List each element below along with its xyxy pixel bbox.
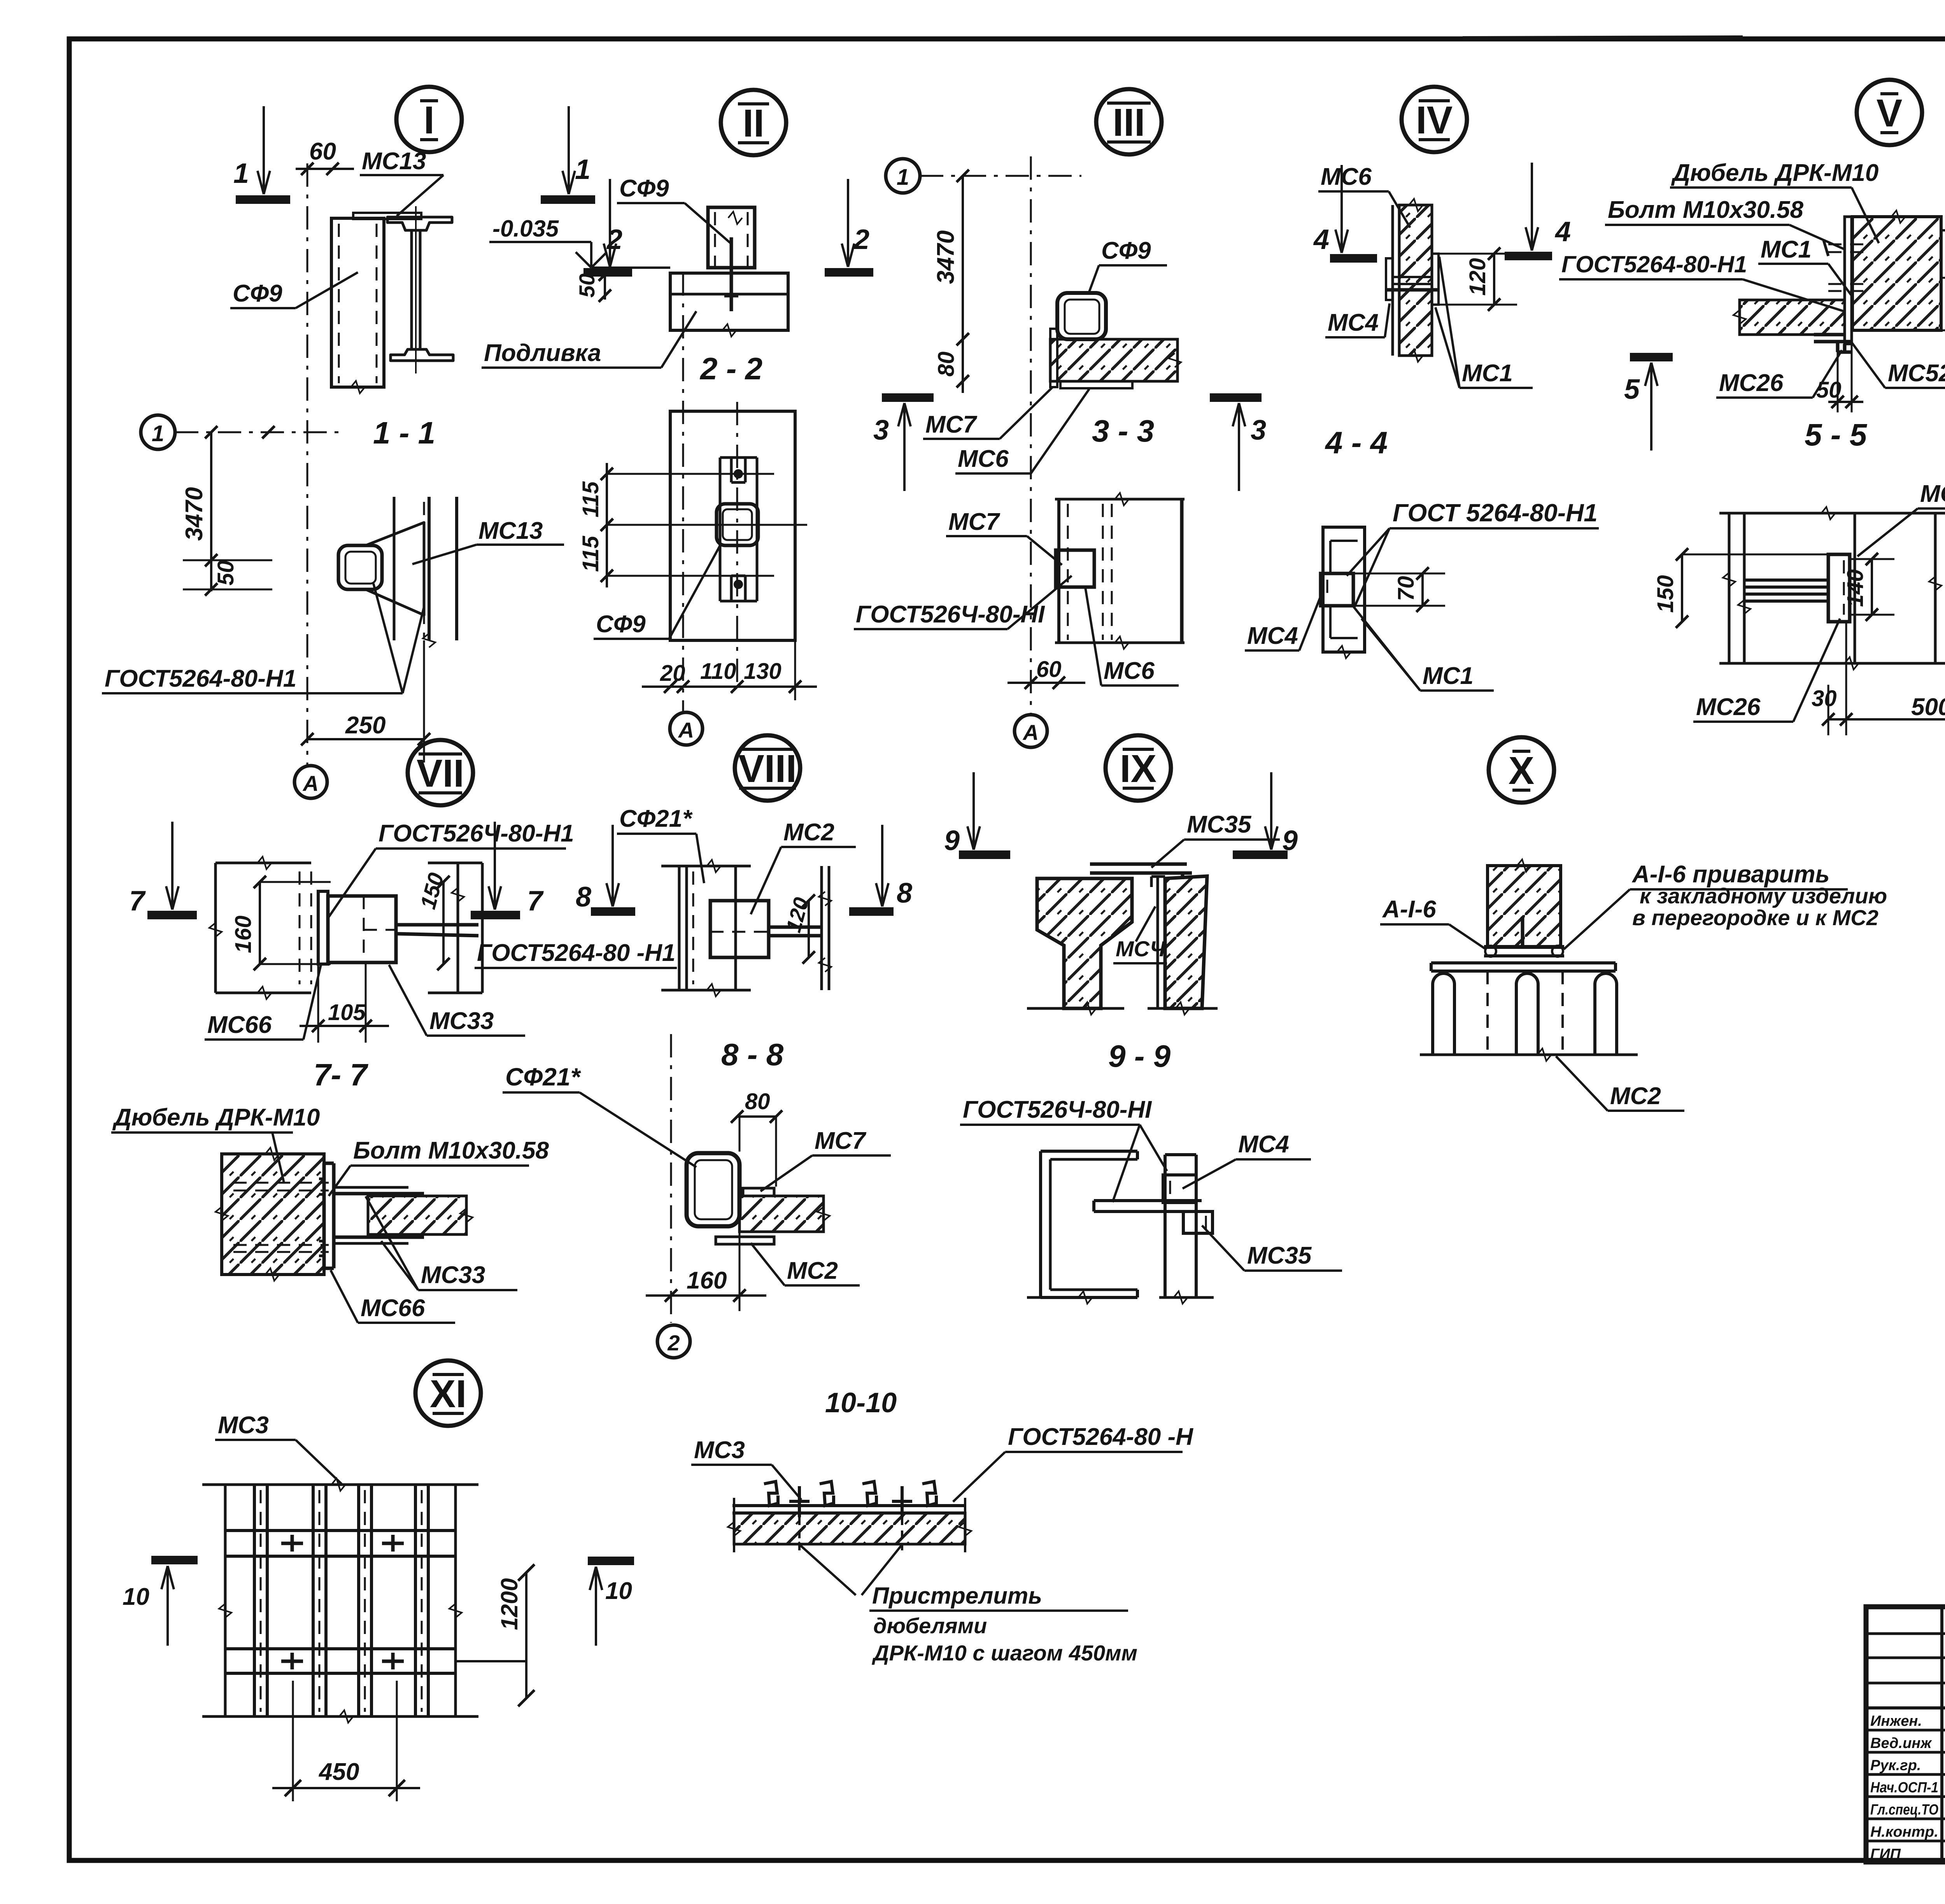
node VIII weld lines right xyxy=(769,927,822,936)
node 5-5 left wall xyxy=(1723,513,1750,663)
label МС7 node 8-8 xyxy=(760,1127,891,1191)
svg-text:130: 130 xyxy=(744,659,782,684)
svg-text:МС35: МС35 xyxy=(1187,811,1252,838)
title block personnel table xyxy=(1866,1607,1945,1862)
svg-text:60: 60 xyxy=(309,138,336,165)
node I I-beam web xyxy=(412,230,420,350)
node III slab hatched xyxy=(1050,339,1181,381)
node IX top plate МС35 xyxy=(1090,864,1192,879)
label МС4 node 9-9 xyxy=(1183,1131,1311,1189)
node X МС2 top plate xyxy=(1431,963,1616,971)
svg-text:4 - 4: 4 - 4 xyxy=(1325,425,1388,460)
svg-text:МС66: МС66 xyxy=(207,1012,272,1038)
node X stem xyxy=(1521,917,1524,947)
label МС7 node III xyxy=(923,387,1053,439)
svg-text:X: X xyxy=(1509,749,1535,792)
section mark 10 right xyxy=(588,1561,634,1646)
node III tube section xyxy=(1057,293,1106,339)
svg-text:50: 50 xyxy=(1816,377,1842,403)
label ГОСТ5264-80-Н1 node VII xyxy=(328,820,574,918)
label ГОСТ5264-80-Н1 node I xyxy=(102,584,424,693)
node X rebar loops xyxy=(1433,973,1617,1055)
svg-text:160: 160 xyxy=(231,915,256,953)
узел III marker circle xyxy=(1096,89,1162,154)
section mark 4 left xyxy=(1330,165,1377,258)
dimension 1200 node XI xyxy=(456,1564,534,1706)
svg-text:50: 50 xyxy=(213,560,238,586)
node XI top line xyxy=(202,1478,478,1491)
node V bolt dashed lower xyxy=(1828,284,1867,291)
svg-text:115: 115 xyxy=(578,481,603,517)
section mark 3 right xyxy=(1210,398,1262,491)
svg-text:3: 3 xyxy=(873,415,889,446)
node VII left wall xyxy=(209,857,311,999)
node XI band row 2 xyxy=(225,1649,456,1673)
label МС2 node 8-8 xyxy=(751,1243,860,1285)
label Дюбель ДРК-М10 node V xyxy=(1670,160,1879,243)
section mark 4 right xyxy=(1505,163,1552,256)
node III plate МС7 xyxy=(1050,329,1057,387)
scan smudge top edge xyxy=(1463,37,1743,38)
dimension 115 115 node 2-2 xyxy=(601,463,613,587)
svg-text:2: 2 xyxy=(853,224,869,255)
node 7-7 МС66 plate xyxy=(319,1163,334,1268)
node I axis circle А xyxy=(294,766,327,798)
svg-text:МС6: МС6 xyxy=(958,445,1009,472)
section mark 1 left xyxy=(236,106,290,200)
svg-text:А-І-6: А-І-6 xyxy=(1382,896,1436,923)
svg-text:80: 80 xyxy=(934,351,959,377)
svg-text:в перегородке и к МС2: в перегородке и к МС2 xyxy=(1632,905,1878,930)
label МС6 node III xyxy=(955,389,1089,473)
node V angle МС26 xyxy=(1814,335,1852,352)
svg-text:1 - 1: 1 - 1 xyxy=(373,416,435,450)
label ГОСТ5264-80-Н1 right node VII xyxy=(475,940,677,968)
svg-text:дюбелями: дюбелями xyxy=(873,1613,987,1638)
svg-text:1200: 1200 xyxy=(496,1578,522,1630)
node IV strap МС4 xyxy=(1386,277,1439,290)
node IV plate МС1 left xyxy=(1386,258,1393,300)
svg-text:Болт М10x30.58: Болт М10x30.58 xyxy=(353,1137,549,1164)
node XI outer verticals xyxy=(219,1485,462,1716)
svg-text:к закладному изделию: к закладному изделию xyxy=(1640,884,1887,908)
svg-text:Н.контр.: Н.контр. xyxy=(1870,1824,1938,1840)
label Болт М10х30.58 node V xyxy=(1605,196,1844,249)
dimension 50 node V xyxy=(1828,344,1863,412)
node 4-4 column xyxy=(1323,527,1365,658)
node V plate МС52 xyxy=(1845,217,1852,344)
svg-text:60: 60 xyxy=(1036,657,1062,682)
svg-text:ГОСТ526Ч-80-Н1: ГОСТ526Ч-80-Н1 xyxy=(378,820,574,847)
svg-text:МС4: МС4 xyxy=(1238,1131,1289,1158)
dimension 120 node VIII xyxy=(803,894,815,964)
svg-text:СФ21*: СФ21* xyxy=(505,1063,581,1091)
dimension 150 node VII xyxy=(437,876,450,970)
dimension 80 node V xyxy=(1941,272,1945,337)
node IX right hatched column xyxy=(1165,876,1207,1008)
узел VII marker circle xyxy=(408,740,473,805)
axis line node I vertical xyxy=(307,163,308,766)
node X base plate with rebars xyxy=(1484,946,1564,957)
node 8-8 axis circle 2 xyxy=(657,1325,690,1358)
dimension 3470 node III xyxy=(957,176,969,393)
svg-text:МСЧ: МСЧ xyxy=(1116,936,1166,961)
svg-text:МС4: МС4 xyxy=(1247,622,1298,649)
dimension 20 110 130 node 2-2 xyxy=(642,640,817,700)
svg-text:8 - 8: 8 - 8 xyxy=(721,1037,784,1072)
svg-text:МС2: МС2 xyxy=(1610,1083,1661,1110)
dimension 140 node 5-5 xyxy=(1850,553,1894,621)
svg-text:120: 120 xyxy=(1465,258,1490,296)
node 5-5 beam lines xyxy=(1744,580,1828,601)
node 2-2 dim extension lines xyxy=(607,474,807,576)
svg-text:МС33: МС33 xyxy=(421,1262,485,1289)
svg-text:10: 10 xyxy=(605,1578,632,1604)
label МС2 node X xyxy=(1556,1056,1684,1111)
section mark 1 right xyxy=(541,106,595,200)
svg-text:9: 9 xyxy=(1282,825,1298,856)
node V axis circle Б xyxy=(1941,213,1945,247)
node 7-7 dowel bottom dashed xyxy=(233,1245,329,1252)
узел XI marker circle xyxy=(415,1361,481,1426)
dimension 30 500 node 5-5 xyxy=(1822,622,1945,735)
node 2-2 tube axis xyxy=(736,402,738,684)
label Подливка xyxy=(482,311,696,368)
svg-text:МС26: МС26 xyxy=(1719,370,1784,396)
svg-text:1: 1 xyxy=(897,165,909,190)
node 2-2 tube section xyxy=(717,504,758,545)
svg-text:Инжен.: Инжен. xyxy=(1870,1713,1922,1729)
dimension 160 node VII xyxy=(254,876,331,970)
node XI channels xyxy=(254,1485,428,1716)
svg-text:МС35: МС35 xyxy=(1247,1242,1312,1269)
section mark 2 left xyxy=(583,179,632,272)
узел II marker circle xyxy=(721,90,786,155)
svg-text:ГОСТ5264-80 -Н1: ГОСТ5264-80 -Н1 xyxy=(477,940,675,966)
personnel names xyxy=(1870,1711,1945,1862)
label ГОСТ5264-80-Н1 node V xyxy=(1559,251,1844,311)
svg-text:8: 8 xyxy=(897,878,912,909)
node 7-7 wall hatched xyxy=(216,1148,324,1281)
node 1-1 gusset МС13 plan xyxy=(366,522,424,615)
svg-text:МС52: МС52 xyxy=(1888,360,1945,387)
label МС6 node 3-3 xyxy=(1085,587,1179,686)
svg-text:А: А xyxy=(302,771,319,796)
node 10-10 dowels xyxy=(789,1486,912,1550)
label СФ9 node I xyxy=(230,272,358,308)
svg-text:10-10: 10-10 xyxy=(825,1387,897,1418)
svg-text:ДРК-М10 с шагом 450мм: ДРК-М10 с шагом 450мм xyxy=(872,1641,1137,1665)
svg-text:МС2: МС2 xyxy=(787,1257,838,1284)
svg-text:150: 150 xyxy=(1653,575,1678,613)
node IX left hatched block xyxy=(1037,878,1132,1008)
dimension 250 node I xyxy=(301,640,430,763)
svg-text:160: 160 xyxy=(687,1267,727,1294)
node 7-7 dowel top dashed xyxy=(233,1183,329,1190)
label МС35 node IX xyxy=(1151,811,1280,868)
node V floor slab hatched xyxy=(1733,300,1845,335)
svg-text:МС33: МС33 xyxy=(429,1008,494,1034)
node IX МС4 plate xyxy=(1151,877,1165,1008)
svg-text:250: 250 xyxy=(345,712,385,739)
svg-text:МС6: МС6 xyxy=(1321,163,1372,190)
узел IX marker circle xyxy=(1106,735,1171,801)
section mark 10 left xyxy=(151,1560,198,1646)
узел X marker circle xyxy=(1489,737,1554,803)
svg-text:МС2: МС2 xyxy=(783,819,834,846)
label МС7 node 3-3 xyxy=(946,508,1062,565)
svg-text:1: 1 xyxy=(152,421,164,446)
svg-text:Гл.спец.ТО: Гл.спец.ТО xyxy=(1870,1802,1938,1818)
svg-text:ГОСТ5264-80-Н1: ГОСТ5264-80-Н1 xyxy=(1561,251,1747,277)
node X ground line xyxy=(1420,1048,1638,1061)
node 5-5 bottom line xyxy=(1719,657,1945,670)
svg-text:115: 115 xyxy=(578,536,603,572)
label МС33 node 7-7 xyxy=(366,1196,517,1290)
node XI band row 1 xyxy=(225,1531,456,1556)
label Болт М10х30.58 node 7-7 xyxy=(329,1137,549,1196)
node 10-10 deck plate xyxy=(732,1506,965,1513)
label А-I-6 node X xyxy=(1380,896,1486,949)
node II anchor bolt xyxy=(724,237,738,311)
node 5-5 top slab line xyxy=(1719,507,1945,519)
dimension 105 node VII xyxy=(300,963,389,1043)
svg-text:V: V xyxy=(1877,91,1903,135)
svg-text:МС52: МС52 xyxy=(1920,480,1945,507)
node X hatched column xyxy=(1488,859,1561,947)
svg-text:МС26: МС26 xyxy=(1696,694,1761,721)
узел V marker circle xyxy=(1857,80,1922,145)
node III axis circle А xyxy=(1015,715,1047,747)
node 8-8 МС2 plate xyxy=(716,1237,774,1244)
node 8-8 slab hatched xyxy=(739,1196,830,1232)
node III axis circle 1 xyxy=(886,159,920,193)
svg-text:МС1: МС1 xyxy=(1761,236,1812,263)
узел IV marker circle xyxy=(1402,87,1467,152)
label МС66 node VII xyxy=(205,965,321,1040)
node 10-10 z-clips xyxy=(764,1481,936,1506)
svg-text:Нач.ОСП-1: Нач.ОСП-1 xyxy=(1870,1780,1938,1796)
label СФ9 node 2-2 xyxy=(594,543,722,639)
dimension 60 node 3-3 xyxy=(1008,677,1085,689)
node I cap plate МС13 xyxy=(353,213,421,219)
node VIII МС2 square xyxy=(710,901,769,957)
node 8-8 МС7 plate xyxy=(743,1188,774,1196)
svg-text:Дюбель ДРК-М10: Дюбель ДРК-М10 xyxy=(1671,160,1878,186)
section mark 8 left xyxy=(591,825,635,912)
node 1-1 channel СФ9 section xyxy=(338,545,382,589)
svg-text:4: 4 xyxy=(1554,216,1571,247)
node III plate МС6 xyxy=(1060,381,1132,388)
svg-text:МС7: МС7 xyxy=(925,411,977,438)
label МС26 node V xyxy=(1716,350,1842,398)
node I I-beam bottom flange xyxy=(391,349,453,361)
svg-text:80: 80 xyxy=(745,1089,770,1114)
svg-text:20: 20 xyxy=(660,661,685,686)
node 4-4 МС1 square xyxy=(1321,573,1353,606)
label МС2 node VIII xyxy=(751,819,856,914)
dimension 160 node 8-8 xyxy=(646,1232,766,1311)
svg-text:5: 5 xyxy=(1624,374,1640,405)
dimension 50 node I xyxy=(183,560,272,596)
svg-text:Вед.инж: Вед.инж xyxy=(1870,1735,1932,1751)
node VII right wall xyxy=(428,863,482,993)
axis line node I horizontal xyxy=(175,431,346,433)
svg-text:Рук.гр.: Рук.гр. xyxy=(1870,1757,1921,1774)
label МС4 node IX xyxy=(1113,906,1167,963)
node 2-2 plan outline xyxy=(670,411,795,640)
label СФ9 node II xyxy=(617,175,731,243)
svg-text:III: III xyxy=(1113,101,1145,144)
node 5-5 right wall xyxy=(1929,513,1941,663)
svg-text:МС66: МС66 xyxy=(361,1295,425,1322)
svg-text:I: I xyxy=(424,98,435,142)
section mark 7 left xyxy=(147,822,197,915)
label МС33 node VII xyxy=(389,965,525,1036)
node VIII right wall lines xyxy=(819,866,831,990)
node 7-7 slab hatched xyxy=(368,1196,473,1234)
dimension 50 node II xyxy=(599,268,611,302)
svg-text:3 - 3: 3 - 3 xyxy=(1092,414,1154,448)
svg-text:140: 140 xyxy=(1843,569,1868,607)
node VII МС33 square xyxy=(328,896,396,963)
node 9-9 МС35 square xyxy=(1183,1211,1213,1233)
section mark 7 right xyxy=(471,822,520,915)
svg-text:ГОСТ526Ч-80-НІ: ГОСТ526Ч-80-НІ xyxy=(963,1096,1152,1123)
svg-text:МС3: МС3 xyxy=(218,1412,269,1439)
dimension 120 node IV xyxy=(1439,247,1517,311)
section mark 9 right node IX xyxy=(1233,772,1288,855)
dimension 80 node 8-8 xyxy=(731,1110,782,1187)
label МС52 node 5-5 xyxy=(1857,480,1945,556)
label МС1 node 4-4 xyxy=(1354,607,1494,691)
svg-text:СФ9: СФ9 xyxy=(596,611,646,638)
svg-text:ГОСТ 5264-80-Н1: ГОСТ 5264-80-Н1 xyxy=(1393,499,1598,527)
svg-text:СФ9: СФ9 xyxy=(1101,237,1151,264)
node IX ground lines xyxy=(1027,1002,1218,1015)
svg-text:70: 70 xyxy=(1393,576,1419,601)
svg-text:Пристрелить: Пристрелить xyxy=(872,1583,1042,1609)
dimension 450 node XI xyxy=(272,1681,420,1801)
svg-text:IX: IX xyxy=(1120,747,1156,791)
node 7-7 top flange xyxy=(334,1187,424,1194)
node 2-2 channel strip xyxy=(720,458,757,601)
dimension 150 node 5-5 xyxy=(1676,548,1828,628)
svg-text:110: 110 xyxy=(700,659,736,684)
svg-text:А: А xyxy=(1022,720,1039,745)
label ГОСТ 5264-80-Н1 node 4-4 xyxy=(1347,499,1599,607)
section mark 2 right xyxy=(825,179,873,272)
node X dashed lines xyxy=(1488,971,1563,1055)
svg-text:МС13: МС13 xyxy=(362,148,426,175)
section mark 5 left xyxy=(1630,357,1673,451)
svg-text:IV: IV xyxy=(1416,98,1453,142)
svg-text:3: 3 xyxy=(1251,415,1266,446)
svg-text:МС1: МС1 xyxy=(1462,360,1513,387)
node 9-9 horizontal plate xyxy=(1094,1201,1202,1211)
node I channel СФ9 front view xyxy=(331,218,384,393)
elevation mark -0.035 xyxy=(489,216,670,268)
svg-text:105: 105 xyxy=(328,1000,366,1025)
label СФ21 node VIII xyxy=(617,805,704,883)
svg-text:МС13: МС13 xyxy=(478,517,543,544)
svg-text:50: 50 xyxy=(575,274,599,298)
section mark 8 right xyxy=(849,825,894,912)
dimension 70 node 4-4 xyxy=(1353,567,1445,612)
label ГОСТ5264-80-Н1 node 9-9 xyxy=(960,1096,1167,1202)
node 10-10 note text xyxy=(799,1545,1137,1665)
svg-text:2: 2 xyxy=(606,224,622,255)
node II axis circle А xyxy=(670,712,703,745)
svg-text:ГОСТ526Ч-80-НІ: ГОСТ526Ч-80-НІ xyxy=(856,601,1045,628)
node 3-3 plate МС7 square xyxy=(1056,550,1094,587)
dimension 60 node I xyxy=(296,163,354,175)
node 9-9 МС4 square xyxy=(1163,1175,1196,1203)
svg-text:II: II xyxy=(743,102,764,145)
svg-text:МС4: МС4 xyxy=(1328,309,1379,336)
узел I marker circle xyxy=(396,87,462,152)
svg-text:9: 9 xyxy=(944,825,960,856)
svg-text:Болт М10x30.58: Болт М10x30.58 xyxy=(1608,196,1803,223)
label МС4 node IV xyxy=(1325,303,1390,337)
svg-text:9 - 9: 9 - 9 xyxy=(1108,1039,1171,1073)
node 1-1 wall lines xyxy=(394,497,457,647)
node 9-9 right column xyxy=(1027,1155,1214,1304)
svg-text:4: 4 xyxy=(1313,224,1329,255)
section mark 9 left node IX xyxy=(959,772,1010,855)
node I axis circle 1 xyxy=(141,415,175,449)
label ГОСТ5264-80-Н1 node VIII xyxy=(0,0,0,0)
node V dowel dashed top xyxy=(1824,240,1872,256)
svg-text:1: 1 xyxy=(575,154,591,185)
svg-text:МС3: МС3 xyxy=(694,1437,745,1464)
node VII weld lines right xyxy=(396,925,478,936)
label МС66 node 7-7 xyxy=(331,1270,455,1323)
label МС13 node 1-1 xyxy=(412,517,564,564)
dimension 3470 node I xyxy=(205,426,217,591)
svg-text:7: 7 xyxy=(527,885,544,917)
label МС6 node IV xyxy=(1318,163,1410,228)
node 7-7 bottom flange МС33 xyxy=(334,1237,424,1243)
node IV wall hatched xyxy=(1393,199,1432,362)
svg-text:МС7: МС7 xyxy=(948,508,1000,535)
svg-text:450: 450 xyxy=(318,1758,359,1785)
label МС52 node V xyxy=(1852,342,1945,388)
svg-text:ГОСТ5264-80 -Н: ГОСТ5264-80 -Н xyxy=(1008,1424,1193,1450)
svg-text:7- 7: 7- 7 xyxy=(314,1057,368,1092)
svg-text:7: 7 xyxy=(129,885,146,917)
svg-text:30: 30 xyxy=(1812,686,1837,711)
section mark 3 left xyxy=(882,398,934,491)
label МС4 node 4-4 xyxy=(1245,591,1323,650)
svg-text:3470: 3470 xyxy=(181,487,208,541)
node II column tube СФ9 xyxy=(708,207,755,268)
node XI bottom line xyxy=(202,1710,478,1723)
svg-text:2: 2 xyxy=(667,1331,680,1355)
node 5-5 МС52 plate xyxy=(1828,513,1855,663)
svg-text:5 - 5: 5 - 5 xyxy=(1805,417,1868,452)
node 9-9 channel xyxy=(1041,1151,1137,1304)
node I I-beam center line xyxy=(415,206,417,373)
svg-text:МС6: МС6 xyxy=(1104,657,1155,684)
node II grout slab xyxy=(670,273,788,337)
svg-text:2 - 2: 2 - 2 xyxy=(699,351,762,386)
node III horizontal axis xyxy=(920,175,1081,177)
label МС3 node 10-10 xyxy=(691,1437,801,1500)
узел VIII marker circle xyxy=(735,735,800,801)
svg-text:Подливка: Подливка xyxy=(484,340,601,366)
node 10-10 slab hatched xyxy=(728,1498,971,1552)
